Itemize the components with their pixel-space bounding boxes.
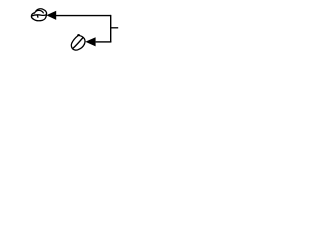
arrow into node A bbox=[46, 11, 56, 20]
stub wire right bbox=[111, 27, 119, 29]
node B (scribbled tilted ellipse with diagonal slash) bbox=[71, 35, 85, 50]
wire top horizontal bbox=[56, 15, 111, 17]
arrow into node B bbox=[85, 37, 95, 46]
chord bbox=[32, 15, 47, 16]
wire vertical bbox=[110, 15, 112, 42]
diagonal slash bbox=[73, 38, 83, 48]
wire bottom horizontal bbox=[96, 41, 112, 43]
node A (scribbled ellipse with horizontal chord) bbox=[31, 9, 46, 21]
